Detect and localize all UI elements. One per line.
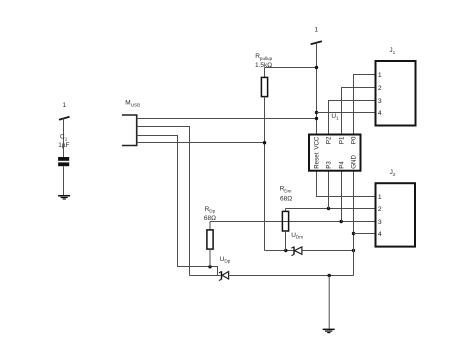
svg-text:2: 2 (378, 85, 382, 92)
wire M_USB pin3 (137, 135, 178, 137)
junction Rpullup VCC (315, 66, 318, 69)
wire UDp anode to GND rail (229, 275, 353, 277)
wire P4 stub (341, 171, 343, 222)
capacitor C1 (58, 134, 69, 167)
resistor RDm (280, 186, 293, 251)
diode UDp (219, 256, 231, 281)
junction P3 on RDm wire (327, 207, 330, 210)
svg-text:P1: P1 (339, 136, 346, 144)
svg-text:P4: P4 (339, 161, 346, 169)
wire RDp top to J2 pin3 (210, 221, 376, 223)
junction UDm GND (352, 249, 355, 252)
svg-text:68Ω: 68Ω (204, 215, 216, 222)
wire vertical B (pin2 down) (189, 126, 191, 276)
wire vertical A (pin3 down) (177, 135, 179, 267)
wire ground branch stem (328, 276, 330, 329)
svg-text:4: 4 (378, 231, 382, 238)
wire GND vertical (353, 171, 355, 276)
wire tick to C1 (63, 118, 65, 157)
svg-text:P0: P0 (351, 136, 358, 144)
svg-text:1: 1 (378, 194, 382, 201)
wire C1 to ground (63, 166, 65, 195)
wire D- elbow to UDm (265, 250, 294, 252)
wire Rpullup top to VCC vertical (265, 67, 317, 69)
svg-text:Reset: Reset (314, 152, 321, 168)
junction RDm bottom (284, 249, 287, 252)
junction RDp bottom (208, 265, 211, 268)
junction M_USB pin1 (315, 117, 318, 120)
wire P1 to J1 pin2 (342, 88, 376, 135)
svg-text:VCC: VCC (314, 136, 321, 150)
svg-text:1: 1 (378, 72, 382, 79)
wire UDm anode to GND vertical (303, 250, 354, 252)
svg-text:P2: P2 (326, 136, 333, 144)
wire D- vertical (264, 97, 266, 251)
svg-text:P3: P3 (326, 161, 333, 169)
wire VCC vertical (316, 43, 318, 135)
junction ground branch (328, 274, 331, 277)
IC U1 (309, 113, 361, 171)
node 1 (top VCC tick) (311, 27, 322, 45)
svg-text:68Ω: 68Ω (280, 195, 292, 202)
svg-text:3: 3 (378, 98, 382, 105)
svg-text:4: 4 (378, 110, 382, 117)
junction J1 pin4 (315, 111, 318, 114)
connector M_USB (122, 100, 140, 146)
connector J1 (376, 47, 416, 125)
junction pin4 D- (263, 141, 266, 144)
ground (bottom) (323, 329, 335, 334)
svg-text:1: 1 (62, 102, 66, 109)
junction P4 on RDp wire (340, 220, 343, 223)
svg-text:GND: GND (351, 155, 358, 169)
svg-text:1: 1 (314, 27, 318, 34)
connector J2 (376, 169, 416, 246)
wire M_USB pin1 to VCC node (137, 118, 317, 120)
wire VCC to J1 pin4 (317, 112, 376, 114)
wire P3 stub (328, 171, 330, 209)
wire P0 to J1 pin1 (354, 75, 376, 135)
svg-text:1µF: 1µF (58, 142, 69, 149)
wire M_USB pin4 to D- (137, 142, 265, 144)
wire GND to J2 pin4 (354, 233, 376, 235)
svg-text:2: 2 (378, 206, 382, 213)
wire W1 horizontal + elbow (178, 267, 218, 276)
wire W2 to UDp cathode (190, 275, 221, 277)
wire RDm top to J2 pin2 (286, 208, 376, 210)
ground (left) (58, 195, 70, 200)
wire M_USB pin2 (137, 126, 190, 128)
wire Reset to J2 pin1 (317, 171, 376, 197)
diode UDm (291, 232, 303, 256)
wire P2 to J1 pin3 (329, 101, 376, 135)
resistor RDp (204, 206, 216, 267)
svg-text:3: 3 (378, 219, 382, 226)
node 1 (left VCC tick) (59, 102, 70, 120)
resistor Rpullup (255, 53, 273, 97)
junction J2 pin4 (352, 232, 355, 235)
